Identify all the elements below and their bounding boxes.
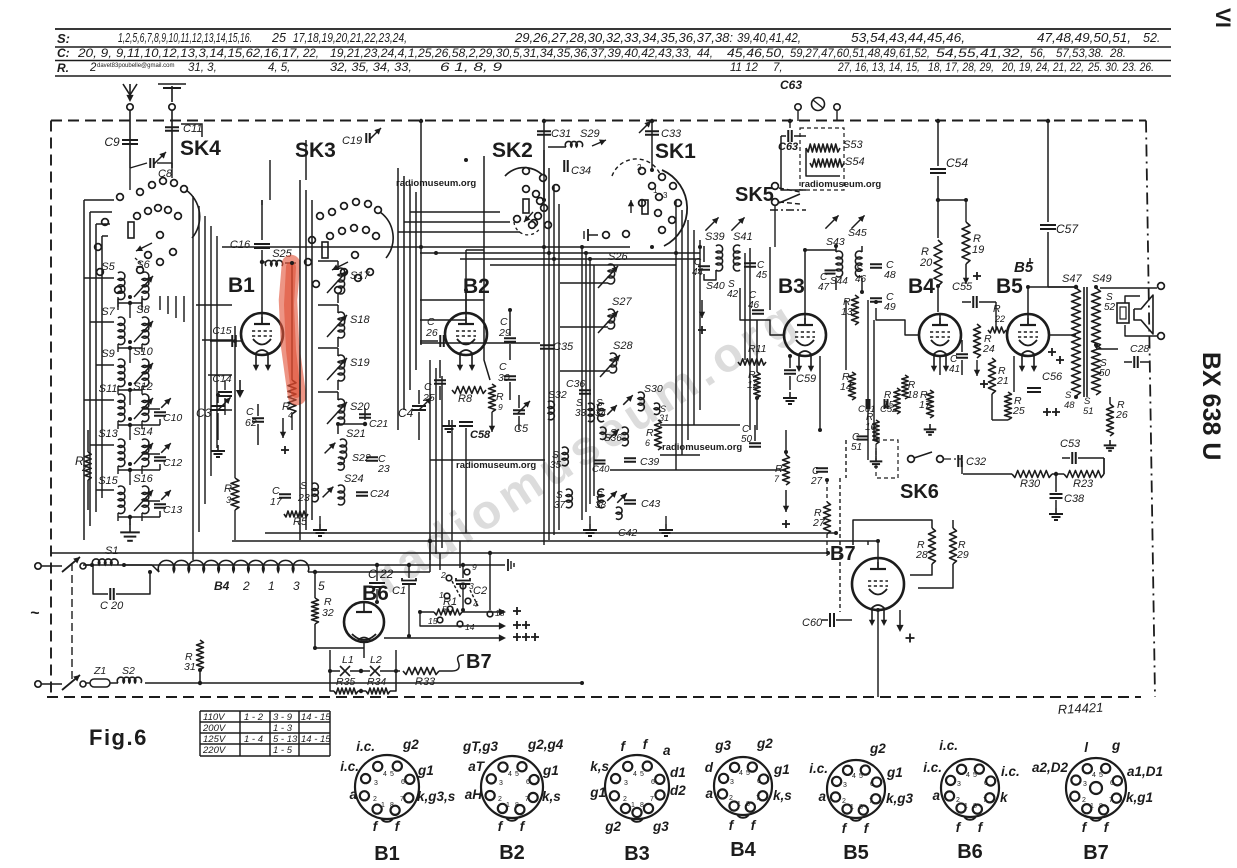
wire B7 cathode plus <box>899 610 901 628</box>
svg-text:31, 3,: 31, 3, <box>188 62 217 74</box>
svg-text:C10: C10 <box>163 412 182 424</box>
lamp pilot <box>795 104 801 110</box>
wire central bundle 3 <box>675 200 677 470</box>
svg-text:Fig.6: Fig.6 <box>89 725 148 750</box>
svg-text:i.c.: i.c. <box>809 761 828 776</box>
svg-text:k,g1: k,g1 <box>1126 790 1153 805</box>
svg-text:6: 6 <box>651 779 655 786</box>
svg-text:1: 1 <box>631 802 635 809</box>
svg-text:46: 46 <box>855 274 867 285</box>
svg-text:C21: C21 <box>369 418 388 430</box>
resistor R5 <box>284 511 308 517</box>
svg-text:26: 26 <box>1115 409 1128 421</box>
svg-text:S14: S14 <box>133 426 153 438</box>
capacitor C35 <box>540 344 554 346</box>
svg-text:C59: C59 <box>796 373 816 385</box>
svg-text:a2,D2: a2,D2 <box>1032 760 1069 775</box>
wire lamp row <box>330 670 340 672</box>
switch mains upper blade <box>62 557 80 572</box>
svg-text:C16: C16 <box>230 239 251 251</box>
wire B7 frame <box>853 520 932 545</box>
svg-text:3: 3 <box>1083 781 1087 788</box>
svg-text:54,55,41,32,: 54,55,41,32, <box>936 48 1024 60</box>
wire chassis dashed border left <box>50 121 52 698</box>
capacitor C5 <box>513 409 525 411</box>
wire B5 anode up <box>1027 287 1029 313</box>
wire selector drops <box>429 541 431 572</box>
svg-text:C5: C5 <box>514 423 529 435</box>
svg-text:13: 13 <box>841 306 853 318</box>
svg-text:5: 5 <box>746 770 750 777</box>
wire mains line lower <box>145 682 582 684</box>
svg-text:C31: C31 <box>551 128 571 140</box>
svg-text:B7: B7 <box>1083 842 1109 864</box>
wire row S11-S12 <box>117 421 119 429</box>
wire B7 bus links <box>867 541 869 553</box>
svg-text:7: 7 <box>400 796 404 803</box>
svg-text:18: 18 <box>907 390 919 401</box>
wire density SK4 top feeds <box>159 296 161 310</box>
wire B3 column <box>756 320 758 372</box>
long bus y565 <box>83 564 505 566</box>
svg-text:B3: B3 <box>624 843 650 865</box>
svg-text:S17: S17 <box>350 270 370 282</box>
svg-text:25: 25 <box>1012 405 1025 417</box>
junction dots various <box>260 260 264 264</box>
svg-text:R33: R33 <box>415 676 436 688</box>
wire HT outputs <box>463 611 500 613</box>
svg-text:C13: C13 <box>163 504 182 516</box>
svg-text:g: g <box>1111 738 1121 753</box>
svg-text:S45: S45 <box>848 227 867 239</box>
svg-text:5: 5 <box>859 773 863 780</box>
switch gang dash link <box>71 563 73 680</box>
wire out terminals <box>1095 345 1097 348</box>
tube socket B6 <box>941 759 999 817</box>
svg-text:45: 45 <box>756 270 768 281</box>
wire IF1 frame <box>703 246 705 262</box>
svg-text:B5: B5 <box>843 842 869 864</box>
wire SK3 left bundle <box>299 180 301 540</box>
capacitor C38 <box>1050 493 1063 495</box>
svg-text:k,g3,s: k,g3,s <box>417 789 456 804</box>
capacitor C13 <box>142 500 160 502</box>
mains terminal lower <box>35 681 41 687</box>
svg-text:29: 29 <box>498 327 511 339</box>
svg-text:B3: B3 <box>778 275 805 298</box>
svg-text:S10: S10 <box>133 346 153 358</box>
svg-text:SK3: SK3 <box>295 139 336 162</box>
wire selector to R33 <box>395 650 397 671</box>
wire B6 bottom drop <box>363 642 365 658</box>
ground mid right <box>665 516 667 524</box>
svg-text:R14421: R14421 <box>1057 700 1103 717</box>
svg-text:5: 5 <box>390 771 394 778</box>
resistor R3 <box>231 478 239 510</box>
svg-text:6: 6 <box>401 779 405 786</box>
svg-text:48: 48 <box>884 269 896 281</box>
svg-text:C:: C: <box>57 46 70 60</box>
svg-text:radiomuseum.org: radiomuseum.org <box>801 179 881 190</box>
svg-text:3: 3 <box>730 779 734 786</box>
ground SK1 stator <box>588 234 598 236</box>
svg-text:6: 6 <box>984 780 988 787</box>
svg-text:47: 47 <box>818 282 830 293</box>
svg-text:S24: S24 <box>344 473 364 485</box>
svg-text:7: 7 <box>525 796 529 803</box>
wire choke to selector <box>308 571 430 573</box>
svg-text:i.c.: i.c. <box>939 738 958 753</box>
table voltage selector <box>200 710 330 712</box>
svg-text:59,27,47,60,51,48,49,61,52,: 59,27,47,60,51,48,49,61,52, <box>790 48 930 60</box>
svg-text:SK1: SK1 <box>655 140 696 163</box>
tube B3 <box>784 314 826 356</box>
svg-text:4: 4 <box>1092 772 1096 779</box>
wire R25 plus <box>1043 411 1051 413</box>
svg-text:32, 35, 34, 33,: 32, 35, 34, 33, <box>330 62 412 74</box>
svg-text:14 - 15: 14 - 15 <box>301 734 331 745</box>
svg-text:57,53,38.: 57,53,38. <box>1056 48 1104 60</box>
svg-text:B6: B6 <box>957 841 983 863</box>
svg-text:5: 5 <box>973 772 977 779</box>
svg-text:19: 19 <box>972 244 984 256</box>
svg-text:B5: B5 <box>996 275 1023 298</box>
capacitor C33 <box>651 121 653 170</box>
svg-text:g3: g3 <box>714 738 731 753</box>
svg-text:2: 2 <box>373 796 377 803</box>
wire row S5-S6 <box>117 299 119 307</box>
svg-text:S44: S44 <box>830 276 848 287</box>
wire central bundle 2 <box>581 247 583 520</box>
svg-text:4: 4 <box>739 770 743 777</box>
svg-text:27, 16, 13, 14, 15,: 27, 16, 13, 14, 15, <box>837 62 920 74</box>
svg-text:3 - 9: 3 - 9 <box>273 712 293 723</box>
wire SK2 outline <box>484 156 490 380</box>
wire B5 grid link <box>995 302 997 330</box>
svg-text:33: 33 <box>575 408 587 419</box>
svg-text:~: ~ <box>30 605 40 622</box>
svg-text:9,11,10,12,13,3,14,15,62,16,17: 9,11,10,12,13,3,14,15,62,16,17, <box>116 48 300 60</box>
svg-text:3: 3 <box>226 495 231 505</box>
svg-text:125V: 125V <box>203 734 227 745</box>
svg-text:C33: C33 <box>661 128 682 140</box>
tube B5 <box>1007 314 1049 356</box>
svg-text:29: 29 <box>956 549 969 561</box>
svg-text:R1: R1 <box>443 596 457 608</box>
svg-text:R8: R8 <box>458 393 473 405</box>
svg-text:B7: B7 <box>466 651 492 673</box>
svg-text:C9: C9 <box>104 135 120 149</box>
svg-text:f: f <box>498 819 504 834</box>
svg-text:21: 21 <box>996 375 1009 387</box>
tube socket B2 <box>481 756 543 818</box>
resistor R30 <box>1012 471 1052 478</box>
svg-text:S9: S9 <box>101 348 114 360</box>
svg-text:110V: 110V <box>203 712 226 723</box>
svg-text:C56: C56 <box>1042 371 1063 383</box>
tube B4 <box>919 314 961 356</box>
svg-text:24: 24 <box>982 343 995 355</box>
svg-text:aT: aT <box>468 759 486 774</box>
svg-text:5: 5 <box>318 579 325 593</box>
wire R19 top <box>938 199 966 201</box>
svg-text:radiomuseum.org: radiomuseum.org <box>456 460 536 471</box>
wire long horizontals mid <box>420 342 540 344</box>
svg-text:R34: R34 <box>367 676 386 688</box>
inductor S31 <box>654 403 660 415</box>
svg-text:a: a <box>663 743 671 758</box>
svg-text:26: 26 <box>425 327 438 339</box>
wire density right verticals <box>744 253 746 360</box>
svg-text:3: 3 <box>499 780 503 787</box>
svg-text:C1: C1 <box>392 585 406 597</box>
svg-text:radiomuseum.org: radiomuseum.org <box>662 442 742 453</box>
tube B7 <box>852 558 904 610</box>
capacitor C15 <box>230 340 241 342</box>
svg-text:5: 5 <box>1099 772 1103 779</box>
svg-text:C54: C54 <box>946 156 968 170</box>
svg-text:g1: g1 <box>417 763 434 778</box>
svg-text:56,: 56, <box>1030 48 1046 60</box>
svg-text:8: 8 <box>746 801 750 808</box>
svg-text:S7: S7 <box>101 306 115 318</box>
svg-text:48: 48 <box>1064 400 1075 411</box>
svg-text:1 - 4: 1 - 4 <box>244 734 263 745</box>
wire density B5 links <box>1049 334 1076 336</box>
svg-text:l: l <box>1084 740 1088 755</box>
svg-text:S32: S32 <box>548 389 567 401</box>
trimmer arrows IF2 <box>825 215 838 228</box>
svg-text:S21: S21 <box>346 428 366 440</box>
svg-text:k,g3: k,g3 <box>886 791 914 806</box>
switch SK5 blade <box>779 194 800 203</box>
svg-text:S39: S39 <box>705 231 725 243</box>
svg-text:a: a <box>349 787 357 802</box>
wire R4 plus arrow <box>282 418 284 438</box>
svg-text:g2,g4: g2,g4 <box>527 737 564 752</box>
svg-text:SK6: SK6 <box>900 481 939 503</box>
wire B3 to bus <box>756 430 758 541</box>
ground S-ladder mid <box>589 516 591 524</box>
svg-text:1: 1 <box>506 802 510 809</box>
svg-text:VI: VI <box>1211 8 1234 28</box>
svg-text:6 1, 8, 9: 6 1, 8, 9 <box>440 62 503 74</box>
svg-text:15: 15 <box>428 616 438 626</box>
wire selector links <box>396 670 430 672</box>
svg-text:S5: S5 <box>101 261 115 273</box>
svg-text:45,46,50,: 45,46,50, <box>727 48 785 60</box>
svg-text:SK4: SK4 <box>180 137 221 160</box>
svg-text:S13: S13 <box>98 428 118 440</box>
wire B3 grid link <box>740 288 784 335</box>
svg-text:12: 12 <box>747 379 759 391</box>
svg-text:1: 1 <box>381 802 385 809</box>
svg-text:25: 25 <box>271 31 286 45</box>
ground bus right end <box>504 564 506 566</box>
resistor R9 <box>489 384 496 412</box>
inductor S18 <box>338 312 345 338</box>
svg-text:k,s: k,s <box>773 788 792 803</box>
tube B6 rectifier <box>344 602 384 642</box>
svg-text:f: f <box>864 821 870 836</box>
svg-text:1,2,5,6,7,8,9,10,11,12,13,14,1: 1,2,5,6,7,8,9,10,11,12,13,14,15,16. <box>118 31 252 45</box>
tube socket B3 <box>605 755 669 819</box>
capacitor C11 <box>171 122 173 168</box>
svg-text:g2: g2 <box>869 741 886 756</box>
svg-text:R23: R23 <box>1073 478 1094 490</box>
wire row S15-S16 <box>117 513 119 521</box>
svg-text:31: 31 <box>184 661 196 673</box>
svg-text:g1: g1 <box>773 762 790 777</box>
wire chassis dash-dot border right <box>1146 121 1155 698</box>
svg-text:19,21,23,24,4,1,25,26,58,2,29,: 19,21,23,24,4,1,25,26,58,2,29,30,5,31,34… <box>330 48 692 60</box>
svg-text:37: 37 <box>554 500 566 511</box>
highlight red marker <box>288 264 297 396</box>
svg-text:S54: S54 <box>845 156 865 168</box>
svg-text:S18: S18 <box>350 314 370 326</box>
svg-text:1 - 5: 1 - 5 <box>273 745 293 756</box>
svg-text:C58: C58 <box>470 429 491 441</box>
wire row S9-S10 <box>117 386 119 394</box>
svg-text:C43: C43 <box>641 498 660 510</box>
wire row S7-S8 <box>117 344 119 352</box>
svg-text:d: d <box>705 760 714 775</box>
svg-text:7: 7 <box>756 795 760 802</box>
svg-text:B4: B4 <box>214 579 230 593</box>
svg-text:C28: C28 <box>1130 343 1149 355</box>
wire B3 anode up <box>804 250 806 313</box>
svg-text:C4: C4 <box>398 406 414 420</box>
svg-text:25. 30. 23. 26.: 25. 30. 23. 26. <box>1087 62 1154 74</box>
svg-text:1: 1 <box>964 803 968 810</box>
capacitor C16 <box>261 200 263 240</box>
svg-text:f: f <box>621 739 627 754</box>
svg-text:C38: C38 <box>1064 493 1085 505</box>
wire SK6 dashed drop <box>839 478 841 612</box>
svg-text:7: 7 <box>774 474 780 484</box>
svg-text:9: 9 <box>472 562 477 572</box>
svg-text:C32: C32 <box>966 456 986 468</box>
svg-text:C34: C34 <box>571 165 591 177</box>
wire density mid horizontals <box>460 258 700 260</box>
svg-text:S47: S47 <box>1062 273 1082 285</box>
svg-text:200V: 200V <box>202 723 227 734</box>
wire IF2 frame <box>835 246 837 252</box>
svg-text:C63: C63 <box>780 78 802 92</box>
resistor R8 <box>452 387 486 394</box>
svg-text:a1,D1: a1,D1 <box>1127 764 1163 779</box>
resistor S53 heater element <box>806 144 840 152</box>
svg-text:R5: R5 <box>293 516 308 528</box>
wire top feeds <box>789 121 791 128</box>
ground SK3 ladder <box>319 516 321 524</box>
svg-text:47,48,49,50,51,: 47,48,49,50,51, <box>1037 31 1131 45</box>
svg-text:B5: B5 <box>1014 259 1034 276</box>
svg-text:35: 35 <box>550 460 562 471</box>
wire B7 drop to bottom <box>877 610 879 697</box>
svg-text:1 - 3: 1 - 3 <box>273 723 293 734</box>
svg-text:C3: C3 <box>196 406 212 420</box>
trimmer arrows IF1 <box>705 217 718 230</box>
wire SK4 right bundle <box>192 196 194 560</box>
wire B3 bottom links <box>819 356 821 430</box>
svg-text:2: 2 <box>242 579 250 593</box>
node antenna terminal <box>129 84 131 100</box>
svg-text:3: 3 <box>293 579 300 593</box>
svg-text:52: 52 <box>1104 302 1116 313</box>
switch SK4 wafer <box>117 194 124 201</box>
svg-text:S27: S27 <box>612 296 632 308</box>
svg-text:28.: 28. <box>1109 48 1126 60</box>
svg-text:SK5: SK5 <box>735 184 774 206</box>
ground SK4 ladder <box>129 517 131 524</box>
capacitor C9 <box>129 136 131 148</box>
svg-text:a: a <box>932 788 940 803</box>
svg-text:7: 7 <box>1109 797 1113 804</box>
svg-text:8: 8 <box>515 802 519 809</box>
inductor S17 <box>338 268 345 294</box>
svg-text:S:: S: <box>57 31 70 46</box>
wire SK3 right bundle <box>397 168 399 430</box>
svg-text:1: 1 <box>653 186 658 195</box>
capacitor C34 <box>563 160 565 172</box>
svg-text:d1: d1 <box>670 765 686 780</box>
svg-text:g1: g1 <box>542 763 559 778</box>
switch SK3 wafer <box>317 213 324 220</box>
svg-text:4: 4 <box>852 773 856 780</box>
svg-text:g2: g2 <box>604 819 621 834</box>
svg-text:7,: 7, <box>773 62 783 74</box>
wire B2 bottom verticals <box>451 420 453 541</box>
svg-text:SK2: SK2 <box>492 139 533 162</box>
wire SK3-SK2 horizontals <box>420 299 484 301</box>
resistor R33 <box>403 668 439 675</box>
capacitor C57 <box>1047 121 1049 222</box>
wire top table line 2 <box>55 46 1171 48</box>
svg-text:k,s: k,s <box>590 759 609 774</box>
wire B4 B5 bottom links <box>939 356 941 375</box>
tube B1 <box>241 313 283 355</box>
voltage selector contacts <box>446 575 452 581</box>
svg-text:23: 23 <box>297 492 310 504</box>
svg-text:9: 9 <box>498 402 503 412</box>
svg-text:B4: B4 <box>730 839 756 861</box>
svg-text:2: 2 <box>89 62 97 74</box>
wire SK4 internal links <box>129 168 131 190</box>
svg-text:51: 51 <box>851 442 862 453</box>
svg-text:20, 19, 24, 21, 22,: 20, 19, 24, 21, 22, <box>1001 62 1084 74</box>
svg-text:1 - 2: 1 - 2 <box>244 712 264 723</box>
wire SK5 dashdot <box>770 209 806 211</box>
svg-text:14 - 15: 14 - 15 <box>301 712 331 723</box>
wire top table line 3 <box>55 60 1171 62</box>
svg-text:f: f <box>1082 820 1088 835</box>
svg-text:27: 27 <box>810 476 823 487</box>
svg-text:6: 6 <box>645 438 650 448</box>
svg-text:4: 4 <box>633 771 637 778</box>
svg-text:C60: C60 <box>802 617 823 629</box>
svg-text:6: 6 <box>757 778 761 785</box>
svg-text:C15: C15 <box>212 325 231 337</box>
svg-text:f: f <box>751 818 757 833</box>
svg-text:C 20: C 20 <box>100 600 124 612</box>
svg-text:k,s: k,s <box>542 789 561 804</box>
svg-text:f: f <box>729 818 735 833</box>
switch SK6 <box>876 440 898 478</box>
svg-text:g1: g1 <box>589 785 606 800</box>
svg-text:g2: g2 <box>756 736 773 751</box>
svg-text:2: 2 <box>623 796 627 803</box>
